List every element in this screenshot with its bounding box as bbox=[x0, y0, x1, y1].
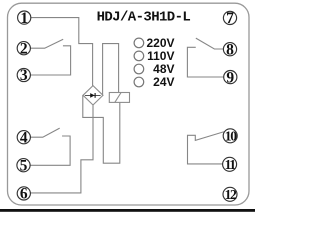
svg-text:48V: 48V bbox=[153, 62, 174, 76]
svg-text:7: 7 bbox=[226, 10, 234, 27]
svg-text:3: 3 bbox=[20, 67, 28, 84]
svg-text:110V: 110V bbox=[147, 49, 174, 63]
svg-text:2: 2 bbox=[20, 40, 28, 57]
svg-text:220V: 220V bbox=[146, 36, 174, 50]
svg-text:9: 9 bbox=[226, 69, 234, 86]
svg-text:12: 12 bbox=[225, 187, 237, 202]
svg-text:HDJ/A-3H1D-L: HDJ/A-3H1D-L bbox=[97, 9, 191, 25]
svg-text:24V: 24V bbox=[153, 75, 174, 89]
svg-text:4: 4 bbox=[20, 129, 28, 146]
svg-text:1: 1 bbox=[20, 10, 28, 27]
svg-text:8: 8 bbox=[226, 41, 234, 58]
svg-text:5: 5 bbox=[20, 157, 28, 174]
svg-text:6: 6 bbox=[20, 186, 28, 203]
svg-text:10: 10 bbox=[225, 128, 237, 143]
svg-text:11: 11 bbox=[225, 157, 237, 172]
